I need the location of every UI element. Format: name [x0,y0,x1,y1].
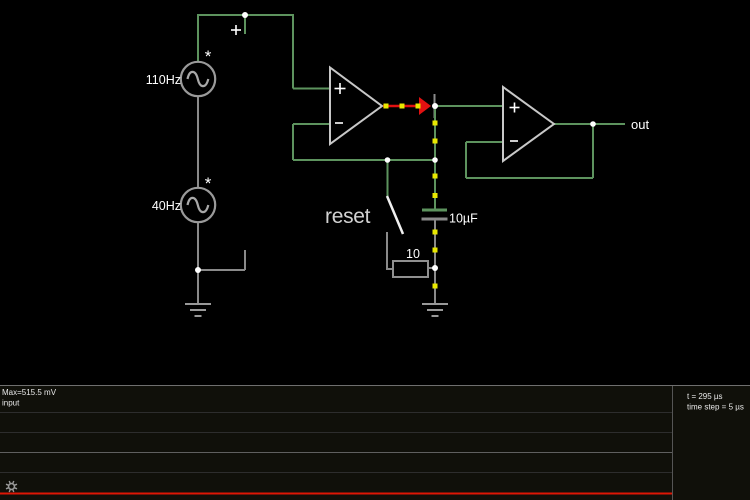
svg-text:t = 295 µs: t = 295 µs [687,392,723,401]
svg-text:input: input [2,399,20,408]
svg-text:reset: reset [325,205,371,228]
svg-text:*: * [205,47,212,66]
svg-text:10µF: 10µF [449,212,478,226]
svg-text:10: 10 [406,247,420,261]
svg-text:*: * [205,174,212,193]
svg-text:Max=515.5 mV: Max=515.5 mV [2,388,57,397]
svg-text:40Hz: 40Hz [152,199,181,213]
svg-text:time step = 5 µs: time step = 5 µs [687,403,744,412]
svg-text:110Hz: 110Hz [146,73,181,87]
svg-text:out: out [631,117,649,132]
